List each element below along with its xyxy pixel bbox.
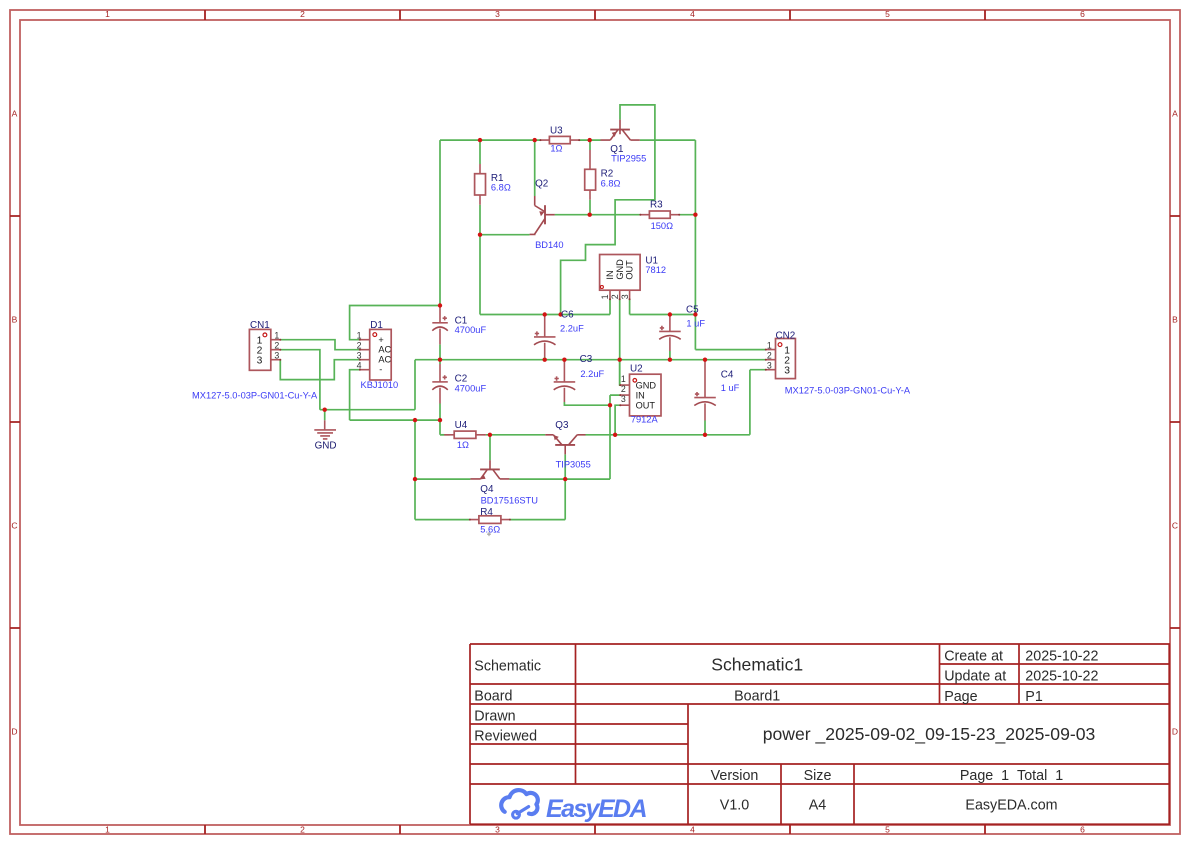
svg-text:R3: R3: [650, 200, 663, 211]
svg-text:C3: C3: [580, 354, 593, 365]
svg-text:A: A: [1172, 109, 1178, 119]
svg-text:KBJ1010: KBJ1010: [361, 380, 399, 390]
resistor U4: [444, 431, 486, 438]
capacitor C6: [534, 316, 556, 357]
svg-text:1: 1: [621, 374, 626, 384]
node C1 C2 mid: [438, 358, 442, 362]
regulator U1 7812: [600, 255, 641, 301]
svg-text:Reviewed: Reviewed: [474, 729, 537, 745]
node U2 out rail: [613, 433, 617, 437]
svg-text:Page 1 Total 1: Page 1 Total 1: [960, 768, 1063, 784]
svg-text:Schematic: Schematic: [474, 658, 541, 674]
svg-text:IN: IN: [636, 390, 645, 400]
svg-text:1: 1: [105, 825, 110, 835]
JUNCTIONS: [323, 138, 708, 481]
regulator U2 7912A: [619, 374, 661, 416]
wire U2 pin3 down to out rail: [615, 405, 620, 435]
node C5 bottom: [668, 358, 672, 362]
svg-text:6.8Ω: 6.8Ω: [491, 183, 511, 193]
capacitor C4: [694, 362, 716, 421]
wire C6 bottom stub: [544, 357, 546, 360]
svg-text:1Ω: 1Ω: [550, 143, 562, 153]
wire CN1 pin3 jog to D1 pin3: [280, 360, 360, 380]
svg-text:1: 1: [600, 294, 610, 299]
svg-text:3: 3: [357, 350, 362, 360]
svg-text:C5: C5: [686, 305, 699, 316]
svg-text:3: 3: [620, 294, 630, 299]
svg-text:1: 1: [357, 330, 362, 340]
wire R4 left lead: [415, 519, 470, 521]
wire Q4 base vertical: [489, 435, 491, 461]
svg-text:EasyEDA: EasyEDA: [546, 795, 647, 823]
node Q4 emitter: [413, 477, 417, 481]
svg-text:D1: D1: [370, 320, 383, 331]
node neg rail left: [413, 418, 417, 422]
transistor Q4 BD17516STU: [470, 460, 509, 479]
svg-text:IN: IN: [605, 270, 615, 279]
wire R1 top lead: [479, 140, 481, 164]
wire U2 pin2 jog: [565, 395, 620, 479]
capacitor C2: [432, 364, 448, 404]
svg-text:1: 1: [274, 330, 279, 340]
svg-text:EasyEDA.com: EasyEDA.com: [965, 798, 1057, 814]
svg-text:2.2uF: 2.2uF: [560, 324, 584, 334]
node C6 top: [543, 312, 547, 316]
wire Q2 emitter vertical: [534, 140, 536, 196]
node Q3 base: [563, 477, 567, 481]
wire U1 gnd drop: [619, 299, 621, 385]
svg-text:Size: Size: [804, 768, 832, 784]
svg-text:1 uF: 1 uF: [686, 319, 705, 329]
svg-text:MX127-5.0-03P-GN01-Cu-Y-A: MX127-5.0-03P-GN01-Cu-Y-A: [192, 390, 318, 400]
node C2 bottom: [438, 418, 442, 422]
svg-text:Update at: Update at: [944, 669, 1006, 685]
capacitor C5: [659, 316, 681, 351]
wire OUT net y314.5 right: [630, 299, 696, 314]
wire base junction down to R4: [510, 479, 565, 519]
svg-text:U2: U2: [630, 364, 643, 375]
svg-text:1: 1: [767, 340, 772, 350]
svg-text:CN2: CN2: [776, 330, 796, 341]
transistor Q1 TIP2955: [601, 120, 640, 141]
wire GND stem: [324, 410, 326, 421]
resistor R1: [475, 164, 486, 205]
svg-text:MX127-5.0-03P-GN01-Cu-Y-A: MX127-5.0-03P-GN01-Cu-Y-A: [785, 385, 911, 395]
wire C3 bottom: [564, 402, 610, 405]
wire C5 stubs: [669, 315, 671, 360]
wire D1 pin4 down to neg rail: [350, 370, 360, 420]
svg-text:3: 3: [274, 350, 279, 360]
wire R2 leads: [589, 140, 591, 215]
node C5 top: [668, 312, 672, 316]
node C6 bottom: [543, 358, 547, 362]
svg-text:C4: C4: [721, 370, 734, 381]
svg-text:1 uF: 1 uF: [721, 383, 740, 393]
wire C2 top bottom stubs: [439, 360, 441, 420]
svg-text:4: 4: [690, 825, 695, 835]
wire IN net y314.5 left: [480, 299, 610, 314]
svg-text:7912A: 7912A: [631, 414, 659, 424]
svg-text:3: 3: [621, 394, 626, 404]
wire mid rail y359.7: [415, 359, 766, 361]
svg-text:3: 3: [767, 360, 772, 370]
node Q2 base R2: [588, 213, 592, 217]
svg-text:Board1: Board1: [734, 689, 780, 705]
svg-text:1: 1: [105, 9, 110, 19]
svg-text:TIP2955: TIP2955: [611, 154, 646, 164]
svg-text:AC: AC: [378, 355, 391, 365]
svg-text:2.2uF: 2.2uF: [580, 369, 604, 379]
origin marker R4: [487, 532, 491, 536]
svg-text:GND: GND: [615, 259, 625, 280]
wire Q1 base loop: [561, 105, 655, 315]
wire C4 stubs: [704, 360, 706, 435]
svg-text:Page: Page: [944, 689, 977, 705]
svg-text:7812: 7812: [645, 265, 666, 275]
node out bus: [693, 312, 697, 316]
svg-text:5: 5: [885, 825, 890, 835]
svg-text:5: 5: [885, 9, 890, 19]
svg-text:V1.0: V1.0: [720, 798, 749, 814]
svg-text:Schematic1: Schematic1: [711, 655, 803, 675]
wire Q2 base to junction: [555, 214, 590, 216]
wire U4 left lead green: [440, 434, 444, 436]
svg-text:5.6Ω: 5.6Ω: [480, 524, 500, 534]
connector CN2: [765, 339, 796, 379]
svg-text:1Ω: 1Ω: [457, 440, 469, 450]
wire mid rail left drop to gnd wire: [320, 360, 415, 410]
wire C1 bottom stub: [439, 344, 441, 359]
svg-text:U3: U3: [550, 126, 563, 137]
connector CN1: [249, 329, 281, 370]
node C1 top: [438, 303, 442, 307]
svg-text:4: 4: [357, 360, 362, 370]
node C4 top: [703, 358, 707, 362]
svg-text:4: 4: [690, 9, 695, 19]
svg-text:CN1: CN1: [250, 320, 270, 331]
svg-text:OUT: OUT: [636, 401, 656, 411]
wire top rail y140: [440, 139, 695, 141]
svg-text:A4: A4: [809, 798, 827, 814]
svg-text:4700uF: 4700uF: [455, 383, 487, 393]
node Q1 base drop: [558, 312, 562, 316]
svg-text:Q3: Q3: [555, 420, 569, 431]
wire bottom rail right of Q3: [586, 370, 766, 435]
wire U2 pin1 from rail: [619, 360, 622, 385]
svg-text:R4: R4: [480, 507, 493, 518]
svg-text:2: 2: [767, 350, 772, 360]
node U4 Q4 base: [488, 433, 492, 437]
transistor Q3 TIP3055: [545, 435, 585, 455]
svg-text:2: 2: [274, 340, 279, 350]
resistor U3: [539, 136, 580, 143]
node U1 U2 gnd: [618, 358, 622, 362]
wire CN1 pin2: [280, 350, 320, 410]
ground symbol GND: [314, 420, 336, 439]
wire D1 pin1 up: [350, 306, 440, 340]
svg-text:GND: GND: [636, 380, 657, 390]
wire neg rail y420: [350, 420, 450, 435]
transistor Q2 BD140: [530, 196, 555, 234]
svg-text:C6: C6: [561, 310, 574, 321]
svg-text:2: 2: [621, 384, 626, 394]
wire Q4 collector to base junction: [509, 478, 565, 480]
wire R1 bottom to rail 234.7: [480, 205, 530, 315]
svg-text:6: 6: [1080, 9, 1085, 19]
svg-text:Q2: Q2: [535, 179, 548, 190]
svg-text:U4: U4: [455, 420, 468, 431]
svg-text:Board: Board: [474, 689, 512, 705]
svg-text:A: A: [12, 109, 18, 119]
wire left vertical x440 top: [439, 140, 441, 305]
TITLEBLOCK: [470, 644, 1170, 824]
svg-text:C: C: [11, 521, 17, 531]
node R3 right: [693, 213, 697, 217]
svg-text:Drawn: Drawn: [474, 709, 515, 725]
svg-text:2: 2: [300, 9, 305, 19]
resistor R2: [585, 150, 596, 200]
capacitor C1: [432, 306, 448, 345]
svg-text:TIP3055: TIP3055: [556, 460, 591, 470]
svg-text:Create at: Create at: [944, 649, 1003, 665]
wire Q3 base down: [564, 454, 566, 479]
svg-text:BD17516STU: BD17516STU: [481, 496, 538, 506]
node R1 bottom: [478, 233, 482, 237]
svg-text:2025-10-22: 2025-10-22: [1025, 649, 1098, 665]
svg-text:4700uF: 4700uF: [455, 325, 487, 335]
resistor R3: [639, 211, 680, 218]
wire rail y214.7 to R3: [590, 214, 696, 216]
wire CN1 pin1 to D1 pin2: [280, 340, 360, 350]
svg-text:B: B: [1172, 315, 1178, 325]
wire U4 right to Q3 emitter: [486, 434, 545, 436]
svg-text:6: 6: [1080, 825, 1085, 835]
node GND: [323, 408, 327, 412]
svg-text:2: 2: [300, 825, 305, 835]
svg-text:2025-10-22: 2025-10-22: [1025, 669, 1098, 685]
wire x415 down to R4: [414, 420, 416, 519]
svg-text:3: 3: [495, 825, 500, 835]
svg-text:6.8Ω: 6.8Ω: [601, 178, 621, 188]
svg-text:2: 2: [610, 294, 620, 299]
node R1 top: [478, 138, 482, 142]
svg-text:P1: P1: [1025, 689, 1043, 705]
resistor R4: [469, 516, 511, 524]
svg-text:150Ω: 150Ω: [651, 221, 674, 231]
WIRES: [280, 105, 766, 520]
node Q2 emitter rail: [533, 138, 537, 142]
bridge rectifier D1: [357, 329, 392, 380]
node C4 bottom: [703, 433, 707, 437]
svg-text:Q4: Q4: [480, 484, 494, 495]
wire Q4 emitter left: [415, 478, 470, 480]
svg-text:3: 3: [495, 9, 500, 19]
svg-text:B: B: [12, 315, 18, 325]
svg-text:AC: AC: [378, 345, 391, 355]
svg-text:power _2025-09-02_09-15-23_202: power _2025-09-02_09-15-23_2025-09-03: [763, 724, 1096, 745]
svg-text:+: +: [378, 335, 383, 345]
svg-text:C: C: [1172, 521, 1178, 531]
COMPONENTS: [249, 120, 795, 524]
svg-text:-: -: [379, 364, 382, 374]
svg-text:D: D: [11, 727, 17, 737]
svg-text:2: 2: [357, 340, 362, 350]
svg-text:3: 3: [257, 356, 263, 367]
wire right bus x695.4: [695, 140, 765, 350]
node C3 U2 in: [608, 403, 612, 407]
node C3 top: [562, 358, 566, 362]
capacitor C3: [554, 362, 576, 403]
svg-text:OUT: OUT: [625, 260, 635, 280]
node R2 top: [588, 138, 592, 142]
svg-text:3: 3: [784, 365, 790, 376]
svg-text:Version: Version: [711, 768, 759, 784]
svg-text:D: D: [1172, 727, 1178, 737]
svg-text:GND: GND: [315, 440, 337, 451]
svg-text:BD140: BD140: [535, 240, 563, 250]
